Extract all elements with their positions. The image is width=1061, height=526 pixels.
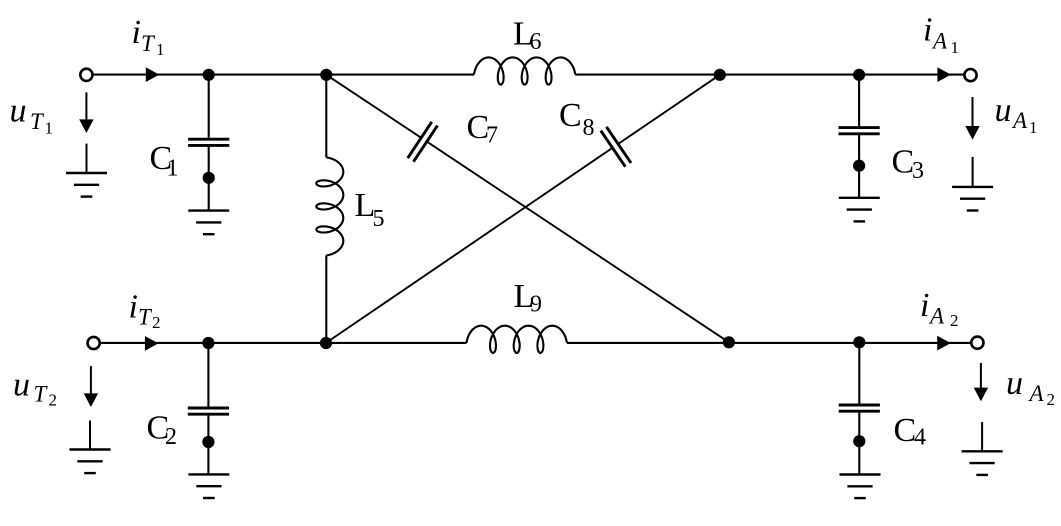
junction node D1 (top rail / diagonal) <box>714 69 726 81</box>
label L9 <box>514 278 543 318</box>
label i_T2 <box>129 289 161 332</box>
junction dot below C3 <box>853 160 865 172</box>
capacitor C2 <box>188 408 229 414</box>
capacitor C1 <box>188 139 229 145</box>
svg-text:9: 9 <box>530 291 542 317</box>
capacitor C1 lead upper <box>208 75 210 138</box>
wire top rail: L6 to T-junctions to terminal A1 <box>575 74 963 76</box>
terminal T2 (port 2 input, open circle) <box>88 337 100 349</box>
ground (C2) <box>188 474 229 498</box>
svg-text:u: u <box>13 366 30 403</box>
label C3 <box>892 144 925 185</box>
label L6 <box>513 16 542 56</box>
wire bottom rail: T2 to L9 left lead <box>100 342 466 344</box>
ground (u_A1) <box>952 157 993 211</box>
svg-text:T: T <box>141 31 156 56</box>
capacitor C8 on diagonal node B2 to node D1 <box>326 75 720 343</box>
svg-text:A: A <box>931 29 948 54</box>
wire top rail: T1 to L6 left lead <box>93 74 474 76</box>
svg-text:4: 4 <box>914 424 926 450</box>
label C1 <box>150 140 179 182</box>
svg-text:u: u <box>995 92 1012 129</box>
label C8 <box>559 97 595 141</box>
inductor L5 lead upper <box>325 75 327 158</box>
label u_A2 <box>1006 365 1055 409</box>
junction dot below C1 <box>203 172 215 184</box>
svg-text:3: 3 <box>912 158 924 184</box>
svg-text:8: 8 <box>583 115 595 141</box>
wire bottom rail: L9 to junctions to terminal A2 <box>567 342 971 344</box>
svg-text:u: u <box>10 92 27 129</box>
ground (u_A2) <box>962 422 1003 475</box>
ground (u_T2) <box>70 421 111 474</box>
capacitor C7 on diagonal node B1 to node D2 <box>326 75 729 343</box>
svg-text:1: 1 <box>167 156 179 182</box>
junction node B2 (bottom rail / L5 / diagonal) <box>320 337 332 349</box>
capacitor C3 <box>839 128 880 134</box>
junction node B1 (top rail / L5 / diagonal) <box>320 69 332 81</box>
label u_T2 <box>13 366 57 409</box>
ground (C1) <box>188 211 229 235</box>
label i_A1 <box>923 12 959 57</box>
inductor L5 <box>316 157 343 255</box>
label i_T1 <box>132 14 165 59</box>
svg-text:C: C <box>892 144 915 181</box>
capacitor C1 lead lower <box>208 145 210 210</box>
label L5 <box>355 187 385 232</box>
inductor L9 on bottom rail <box>467 326 567 353</box>
svg-text:5: 5 <box>373 206 385 232</box>
svg-text:T: T <box>34 381 49 406</box>
junction node A2 (bottom rail / C2) <box>202 337 214 349</box>
svg-text:i: i <box>920 287 929 324</box>
junction node D2 (bottom rail / diagonal) <box>723 336 735 348</box>
label i_A2 <box>920 287 959 330</box>
svg-text:i: i <box>132 14 141 51</box>
svg-text:C: C <box>894 412 917 449</box>
ground (u_T1) <box>66 144 107 197</box>
label C4 <box>894 412 927 451</box>
label C2 <box>147 410 178 451</box>
junction node C1t (top rail / C3) <box>853 69 865 81</box>
voltage arrow u_A2 <box>974 363 988 401</box>
svg-text:1: 1 <box>951 38 960 57</box>
junction node C2t (bottom rail / C4) <box>853 336 865 348</box>
svg-text:i: i <box>129 289 138 326</box>
svg-text:6: 6 <box>530 29 542 55</box>
label u_T1 <box>10 92 54 137</box>
capacitor C4 <box>839 405 880 411</box>
terminal A2 (port 4, open circle) <box>971 337 983 349</box>
junction node A1 (top rail / C1) <box>203 69 215 81</box>
svg-text:7: 7 <box>486 122 498 148</box>
voltage arrow u_T1 <box>79 92 93 133</box>
svg-text:2: 2 <box>1047 390 1056 409</box>
terminal T1 (port 1 input, open circle) <box>80 69 92 81</box>
inductor L6 on top rail <box>474 57 575 84</box>
current arrow i_T1 <box>146 67 160 82</box>
current arrow i_A2 <box>937 336 951 351</box>
svg-text:A: A <box>928 304 945 329</box>
capacitor C4 lead upper <box>858 343 860 404</box>
svg-text:C: C <box>559 97 582 134</box>
svg-text:A: A <box>1011 108 1028 133</box>
svg-text:A: A <box>1028 381 1045 406</box>
svg-text:1: 1 <box>1029 118 1038 137</box>
svg-text:T: T <box>138 305 153 330</box>
capacitor C2 lead lower <box>207 414 209 474</box>
capacitor C4 lead lower <box>858 411 860 474</box>
capacitor C3 lead lower <box>858 134 860 198</box>
capacitor C2 lead upper <box>207 343 209 407</box>
svg-text:T: T <box>30 109 45 134</box>
svg-text:2: 2 <box>950 311 959 330</box>
svg-text:2: 2 <box>165 424 177 450</box>
junction dot below C2 <box>202 436 214 448</box>
voltage arrow u_A1 <box>965 97 979 140</box>
voltage arrow u_T2 <box>84 366 98 407</box>
ground (C3) <box>839 198 880 222</box>
svg-text:2: 2 <box>49 391 58 410</box>
label C7 <box>467 109 499 149</box>
capacitor C3 lead upper <box>858 75 860 127</box>
terminal A1 (port 3, open circle) <box>964 69 976 81</box>
svg-text:1: 1 <box>45 118 54 137</box>
ground (C4) <box>840 475 881 499</box>
current arrow i_A1 <box>937 67 951 82</box>
inductor L5 lead lower <box>325 255 327 343</box>
svg-text:i: i <box>923 12 932 49</box>
svg-text:u: u <box>1006 365 1023 402</box>
svg-text:2: 2 <box>152 313 161 332</box>
junction dot below C4 <box>853 435 865 447</box>
svg-text:1: 1 <box>156 40 165 59</box>
label u_A1 <box>995 92 1038 137</box>
current arrow i_T2 <box>145 336 159 351</box>
